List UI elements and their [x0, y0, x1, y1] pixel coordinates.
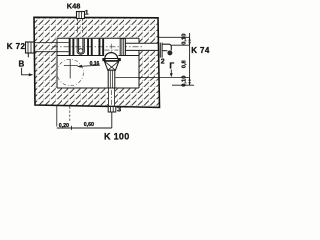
bottom stub (part 3)	[108, 107, 116, 113]
poppet horizontal centerline	[105, 49, 119, 51]
svg-text:3: 3	[117, 105, 121, 114]
svg-text:0,20: 0,20	[59, 123, 69, 129]
top plug (part 1) hidden channel	[78, 19, 83, 33]
svg-text:Г: Г	[169, 60, 174, 70]
neck step / left port channel	[34, 43, 69, 52]
svg-text:K48: K48	[67, 2, 81, 11]
stem slot through bottom wall	[108, 88, 114, 107]
bottom dimension extension lines	[56, 105, 58, 127]
spool land D	[120, 39, 125, 56]
bore top edge	[57, 37, 139, 39]
orifice cross in circle	[64, 59, 78, 79]
svg-text:0,60: 0,60	[84, 122, 94, 128]
spool land B	[87, 39, 93, 56]
svg-text:0,10: 0,10	[182, 34, 188, 45]
hook fitting (part 2)	[163, 44, 172, 55]
top plug K48	[77, 12, 85, 19]
svg-text:1: 1	[85, 9, 89, 16]
spool land A	[69, 39, 75, 56]
right vertical dimension line	[189, 33, 191, 85]
leader from stub to K100	[111, 112, 113, 128]
svg-text:0,10: 0,10	[182, 76, 188, 87]
left port stub K72	[26, 42, 35, 57]
spool land C	[99, 39, 105, 56]
detail callout dashed circle	[57, 59, 83, 85]
poppet dome	[105, 53, 118, 59]
bottom dimension line	[57, 127, 112, 129]
cavity right face	[138, 38, 140, 88]
stem centerline down to leader	[111, 90, 113, 111]
poppet vertical centerline	[110, 44, 112, 59]
right washer on push rod	[160, 43, 162, 58]
main cavity (bore + lower chamber)	[57, 38, 139, 88]
svg-text:0,8: 0,8	[182, 59, 188, 68]
dimension 0,16 with leader arrow	[77, 61, 100, 68]
block outline	[34, 17, 160, 107]
cavity left face	[56, 38, 58, 88]
svg-text:0,16: 0,16	[90, 61, 100, 67]
svg-text:K 72: K 72	[7, 42, 26, 51]
svg-text:B: B	[19, 59, 25, 68]
cavity floor	[57, 87, 139, 89]
svg-text:K 74: K 74	[191, 46, 210, 55]
svg-text:K 100: K 100	[104, 132, 130, 142]
push rod to right wall	[125, 43, 158, 50]
valve cone (bowtie)	[104, 61, 118, 70]
right dimension extension lines	[159, 36, 190, 38]
valve body hatched block	[34, 17, 160, 107]
valve stem	[108, 70, 115, 88]
svg-text:2: 2	[161, 59, 165, 66]
bore bottom edge (interrupted at poppet seat)	[57, 55, 139, 57]
spring cage with ball (under top plug)	[77, 39, 84, 55]
rod channel through right wall	[139, 43, 159, 50]
bore horizontal centerline	[52, 46, 142, 48]
poppet seat plate	[103, 59, 120, 61]
